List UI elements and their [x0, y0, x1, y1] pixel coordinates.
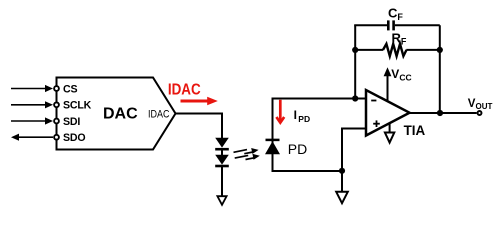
resistor RF zigzag — [383, 44, 407, 56]
node junction: RF right — [437, 47, 443, 53]
capacitor CF plates — [387, 20, 390, 30]
svg-text:PD: PD — [288, 141, 307, 157]
ground arrow below + input — [336, 192, 348, 203]
svg-text:I: I — [294, 108, 297, 122]
svg-text:PD: PD — [298, 114, 310, 124]
LED D2 — [215, 155, 229, 165]
wire output — [410, 112, 477, 114]
pin circle SCLK — [54, 102, 59, 107]
wire SCLK input — [11, 104, 49, 106]
light emission arrow upper — [234, 148, 259, 154]
wire CS input — [11, 88, 49, 90]
ground arrow below op-amp — [385, 133, 394, 143]
svg-text:IDAC: IDAC — [148, 108, 170, 120]
VCC arrow — [387, 75, 389, 102]
wire feedback right vertical — [439, 25, 441, 113]
wire PD loop bottom — [272, 170, 343, 172]
wire feedback left vertical — [354, 25, 356, 98]
pin circle SDO — [54, 135, 59, 140]
svg-text:SDI: SDI — [63, 116, 80, 128]
minus sign — [371, 100, 376, 102]
pin circle CS — [54, 86, 59, 91]
svg-text:TIA: TIA — [404, 123, 426, 138]
wire DAC output to LEDs — [176, 114, 223, 139]
photodiode PD — [266, 139, 280, 142]
wire LED to ground — [221, 166, 223, 196]
wire noninverting input — [342, 129, 366, 172]
LED D1 — [215, 138, 229, 148]
arrowhead SDO — [11, 134, 19, 141]
wire between LEDs — [221, 149, 223, 155]
wire PD left vertical — [272, 98, 274, 173]
wire SDI input — [11, 120, 49, 122]
svg-text:DAC: DAC — [103, 106, 138, 123]
arrowhead SDI — [45, 117, 53, 124]
arrowhead CS — [45, 85, 53, 92]
node junction: output/feedback — [437, 110, 443, 116]
wire PD loop top — [273, 98, 367, 100]
pin circle SDI — [54, 119, 59, 124]
arrowhead SCLK — [45, 101, 53, 108]
DAC block U1 — [57, 78, 176, 150]
wire SDO output — [15, 136, 53, 138]
svg-text:CS: CS — [63, 83, 77, 95]
plus sign — [373, 123, 380, 125]
terminal VOUT — [478, 111, 482, 115]
resistor RF leads — [354, 49, 383, 51]
svg-text:IDAC: IDAC — [168, 82, 201, 99]
node junction: RF left — [352, 47, 358, 53]
light emission arrow lower — [235, 154, 260, 160]
negative supply stem — [389, 124, 391, 133]
arrow IDAC current (red) — [181, 100, 209, 103]
ground arrow below LEDs — [217, 196, 226, 205]
node junction: PD bottom / +input / ground — [339, 168, 345, 174]
op-amp U2 TIA — [366, 90, 410, 136]
node junction: feedback to inverting input — [352, 95, 358, 101]
arrow IPD current (red) — [279, 100, 282, 122]
svg-text:SCLK: SCLK — [63, 100, 92, 112]
svg-text:SDO: SDO — [63, 132, 85, 144]
capacitor CF wires — [354, 24, 387, 26]
wire to ground (noninverting) — [341, 171, 343, 192]
